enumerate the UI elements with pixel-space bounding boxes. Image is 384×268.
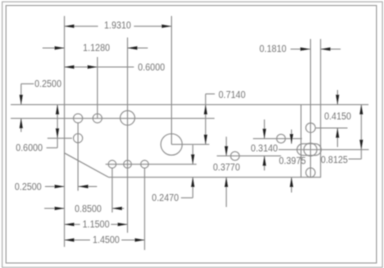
dim 0.7140 line — [205, 94, 207, 144]
dim 0.8500 line — [44, 207, 64, 209]
centerline x=310.5 — [310, 39, 312, 177]
hole circle c3 — [120, 111, 135, 126]
dim 0.6000 left line — [56, 105, 58, 148]
arrowhead 0.1810 left — [300, 47, 310, 50]
hole circle c5 left — [73, 134, 82, 143]
arrowhead 0.7140 down — [204, 135, 207, 145]
part left edge / extension line x=64.4 — [63, 16, 65, 247]
hole circle c2 — [93, 114, 102, 123]
arrowhead 0.4150 down — [336, 95, 339, 105]
extension line x=97.4 — [96, 57, 98, 118]
lower row circle r1 — [108, 160, 116, 168]
hole circle right bottom — [306, 168, 315, 177]
dim 0.3975 line — [291, 130, 293, 144]
svg-text:0.8125: 0.8125 — [321, 155, 348, 166]
right circle extension y=128 — [315, 127, 347, 129]
centerline x=78 — [77, 123, 79, 191]
arrowhead 0.3770 up — [225, 177, 228, 187]
svg-text:0.2470: 0.2470 — [152, 193, 179, 204]
svg-text:0.8500: 0.8500 — [75, 204, 102, 215]
dim 1.1500 line — [64, 223, 80, 225]
arrowhead 0.6000 left down — [56, 128, 59, 138]
hole circle mid cD — [231, 152, 240, 161]
dim 0.3770 line — [225, 137, 227, 156]
arrowhead 0.3975 up — [290, 177, 293, 187]
arrowhead 0.6000 top right — [88, 65, 98, 68]
dim 0.8125 line — [360, 105, 362, 159]
arrowhead 0.3140 up — [263, 156, 266, 166]
arrowhead 0.1810 right — [321, 47, 331, 50]
arrowhead 0.2500 ul down — [19, 95, 22, 105]
arrowhead 0.2470 up — [191, 177, 194, 187]
svg-text:0.7140: 0.7140 — [219, 90, 246, 101]
arrowhead 1.4500 right — [135, 238, 145, 241]
dim 0.6000 top line — [64, 66, 133, 68]
arrowhead 0.7140 up — [204, 105, 207, 115]
lower row circle r3 — [141, 160, 149, 168]
dim 1.9310 line — [64, 25, 98, 27]
part bottom edge line — [109, 176, 322, 178]
extension y=138.2 left circle — [47, 137, 72, 139]
arrowhead 0.2500 bl right — [55, 185, 65, 188]
svg-text:0.3975: 0.3975 — [279, 156, 306, 167]
pocket left edge x=301 — [300, 105, 302, 178]
big circle center extension y=144.4 — [172, 143, 210, 145]
lower row circle r2 — [124, 160, 132, 168]
arrowhead 0.8500 right — [55, 207, 65, 210]
svg-text:0.4150: 0.4150 — [324, 112, 351, 123]
svg-text:1.9310: 1.9310 — [104, 21, 131, 32]
arrowhead 1.9310 left — [64, 25, 74, 28]
svg-text:1.1500: 1.1500 — [83, 220, 110, 231]
part upper ledge line — [11, 117, 215, 119]
arrowhead 0.8125 down — [360, 140, 363, 150]
lower row stem x=144.6 — [144, 168, 146, 250]
arrowhead 0.8500 left — [112, 207, 122, 210]
arrowhead 1.1280 left — [55, 46, 65, 49]
extension line x=171.5 to big circle — [171, 16, 173, 144]
lower hole row line — [106, 163, 197, 165]
dim 0.2470 line — [192, 145, 194, 164]
dim 1.4500 line — [64, 239, 90, 241]
arrowhead 1.1280 right — [128, 46, 138, 49]
mid circle line y=155.9 — [217, 155, 281, 157]
svg-text:0.1810: 0.1810 — [259, 44, 286, 55]
part top edge line — [11, 104, 369, 106]
dim 0.2500 upper-left hook and line — [21, 83, 34, 85]
dim 0.3140 line — [263, 120, 265, 139]
slot center circle — [304, 143, 317, 156]
upper-mid circle line y=138.6 — [253, 138, 302, 140]
arrowhead 0.3770 down — [225, 146, 228, 156]
dim 0.2500 bottom-left line — [45, 186, 64, 188]
arrowhead 1.1500 right — [118, 223, 128, 226]
arrowhead 1.9310 right — [162, 25, 172, 28]
big hole circle c4 — [161, 134, 182, 155]
svg-text:1.4500: 1.4500 — [93, 235, 120, 246]
slot centerline y=149.6 — [279, 149, 369, 151]
svg-text:0.3140: 0.3140 — [251, 143, 278, 154]
arrowhead 0.6000 left up — [56, 105, 59, 115]
extension line x=127.5 — [127, 38, 129, 233]
arrowhead 0.6000 top left — [64, 65, 74, 68]
arrowhead 0.8125 up — [360, 105, 363, 115]
part diagonal edge — [64, 153, 108, 177]
svg-text:0.6000: 0.6000 — [138, 62, 165, 73]
arrowhead 0.2500 ul up — [19, 118, 22, 128]
dim 1.1280 line — [43, 47, 65, 49]
svg-text:1.1280: 1.1280 — [83, 43, 110, 54]
arrowhead 1.1500 left — [64, 223, 74, 226]
arrowhead 0.4150 up — [336, 128, 339, 138]
hole circle right top — [306, 123, 316, 133]
hole circle c1 — [73, 114, 82, 123]
dim 0.4150 line — [337, 90, 339, 105]
svg-text:0.6000: 0.6000 — [16, 143, 43, 154]
dim 0.1810 line — [291, 48, 311, 50]
arrowhead 0.3140 down — [263, 129, 266, 139]
lower row stem x=112.2 — [111, 168, 113, 212]
pocket right edge x=320.6 — [320, 39, 322, 177]
arrowhead 0.3975 down — [290, 134, 293, 144]
slot obround — [297, 144, 321, 156]
arrowhead 1.4500 left — [64, 238, 74, 241]
arrowhead 0.2470 down — [191, 154, 194, 164]
arrowhead 0.2500 bl left — [78, 185, 88, 188]
svg-text:0.2500: 0.2500 — [15, 182, 42, 193]
hole circle mid cB — [277, 134, 286, 143]
svg-text:0.2500: 0.2500 — [35, 79, 62, 90]
svg-text:0.3770: 0.3770 — [213, 163, 240, 174]
